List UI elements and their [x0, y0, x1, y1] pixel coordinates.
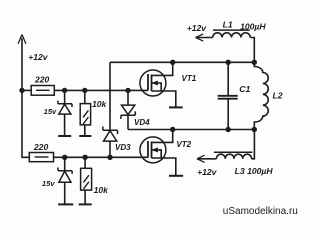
svg-text:+12v: +12v — [187, 23, 208, 33]
node 10k top — [82, 88, 87, 93]
ground (top zener) — [58, 135, 71, 137]
node L1 L2 top — [252, 60, 257, 65]
node VD4 gate VT1 — [125, 88, 130, 93]
resistor 220 bottom — [29, 153, 53, 162]
node VT2 drain — [170, 127, 175, 132]
svg-text:220: 220 — [34, 74, 50, 84]
svg-text:VT2: VT2 — [176, 140, 191, 149]
power arrow +12v left — [18, 35, 26, 44]
diode VD4 — [127, 90, 129, 105]
svg-text:uSamodelkina.ru: uSamodelkina.ru — [223, 206, 298, 217]
ground (bottom zener) — [58, 203, 73, 205]
resistor 10k top — [84, 90, 86, 103]
svg-text:15v: 15v — [44, 107, 57, 116]
svg-text:L2: L2 — [273, 90, 283, 100]
node VD3 gate VT2 — [107, 155, 112, 160]
ground (VT2 source) — [169, 175, 183, 177]
svg-text:L1: L1 — [223, 20, 233, 30]
svg-text:VT1: VT1 — [182, 74, 197, 83]
wire bottom gate row — [54, 156, 149, 158]
zener 15v bottom — [64, 157, 66, 170]
transistor VT2 — [140, 130, 176, 176]
ground (bottom 10k) — [79, 203, 92, 205]
wire VT1 drain node — [110, 61, 254, 63]
svg-text:10k: 10k — [92, 99, 108, 109]
inductor L1 — [196, 30, 255, 62]
svg-text:L3: L3 — [235, 166, 245, 176]
svg-text:15v: 15v — [42, 179, 55, 188]
node 10k bottom — [82, 155, 87, 160]
svg-text:+12v: +12v — [197, 167, 218, 177]
transistor VT1 — [140, 62, 176, 107]
ground (top 10k) — [79, 135, 91, 137]
inductor L2 — [254, 62, 268, 129]
zener 15v top — [64, 90, 66, 103]
svg-text:10k: 10k — [94, 185, 110, 195]
wire left +12v rail — [22, 38, 29, 157]
node VT1 drain — [170, 60, 175, 65]
svg-text:VD3: VD3 — [115, 143, 131, 152]
svg-text:100µH: 100µH — [240, 22, 266, 32]
node zener top — [62, 88, 67, 93]
inductor L3 — [197, 130, 254, 163]
wire top gate row — [54, 89, 148, 91]
svg-text:C1: C1 — [239, 84, 250, 94]
svg-text:100µH: 100µH — [247, 166, 273, 176]
resistor 220 top — [31, 86, 54, 96]
wire rail to top 220 — [22, 89, 31, 91]
diode VD3 — [109, 62, 111, 130]
svg-text:220: 220 — [33, 142, 49, 152]
resistor 10k bottom — [84, 157, 86, 168]
node zener bottom — [62, 155, 67, 160]
svg-text:VD4: VD4 — [134, 118, 150, 127]
ground (VT1 source) — [169, 106, 183, 108]
capacitor C1 — [227, 62, 229, 95]
node C1 top — [226, 60, 231, 65]
wire VT2 drain node — [128, 129, 254, 131]
node L2 L3 bottom — [252, 127, 257, 132]
node C1 bottom — [226, 127, 231, 132]
svg-text:+12v: +12v — [28, 52, 49, 62]
node rail/220 top — [19, 88, 24, 93]
